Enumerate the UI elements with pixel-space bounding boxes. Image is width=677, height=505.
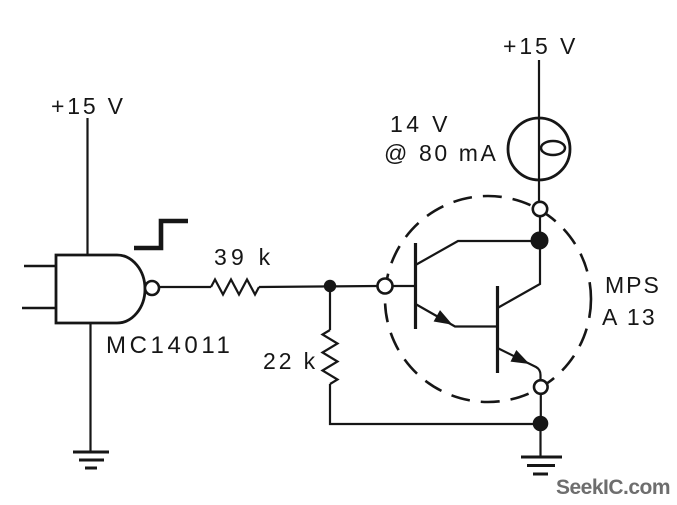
collector junction dot xyxy=(531,232,549,250)
gate input wire 1 xyxy=(24,265,56,268)
transistor Q2 emitter arrow xyxy=(511,350,530,364)
node base open circle xyxy=(378,279,393,294)
transistor Q2 collector wire xyxy=(498,248,541,308)
NAND gate U1 MC14011 body xyxy=(56,255,145,323)
wire R1 to node A xyxy=(259,286,378,287)
wire collector circle to collector dot xyxy=(539,216,541,234)
transistor Q2 base bar xyxy=(496,286,499,373)
wire node A to R2 xyxy=(329,286,331,330)
wire gate bottom to ground xyxy=(89,323,91,452)
wire R2 bottom to emitter node xyxy=(330,384,541,424)
gate input wire 2 xyxy=(22,307,56,310)
ground (left) xyxy=(73,452,109,468)
svg-text:@ 80 mA: @ 80 mA xyxy=(384,140,498,166)
svg-text:+15 V: +15 V xyxy=(51,93,126,119)
svg-text:14 V: 14 V xyxy=(390,111,451,137)
transistor Q1 collector wire xyxy=(416,241,538,265)
wire base circle to Q1 xyxy=(393,285,417,287)
ground (right) xyxy=(521,457,562,474)
svg-text:39 k: 39 k xyxy=(214,244,274,270)
svg-text:MPS: MPS xyxy=(605,272,661,298)
svg-text:A 13: A 13 xyxy=(602,304,657,330)
wire +15V into lamp xyxy=(538,60,540,180)
svg-text:+15 V: +15 V xyxy=(503,33,578,59)
wire emitter circle to emitter dot xyxy=(540,394,542,418)
lamp DS1 vertical lead through bulb xyxy=(538,118,540,202)
svg-text:MC14011: MC14011 xyxy=(106,332,233,359)
lamp DS1 circle xyxy=(508,118,570,180)
pulse step symbol xyxy=(134,221,188,248)
wire bubble to R1 xyxy=(159,286,211,288)
transistor Q2 emitter wire xyxy=(498,348,541,379)
transistor Q1 emitter wire xyxy=(416,304,498,327)
emitter junction dot xyxy=(533,416,549,432)
transistor Q1 base bar xyxy=(414,243,417,329)
NAND gate output bubble xyxy=(145,281,159,295)
emitter node open circle xyxy=(534,380,548,394)
dashed circle MPS A13 outline xyxy=(385,196,591,402)
wire +15V to NAND gate top xyxy=(86,118,88,255)
transistor Q1 emitter arrow xyxy=(434,310,453,325)
svg-text:SeekIC.com: SeekIC.com xyxy=(556,476,670,499)
resistor R1 39 k xyxy=(211,280,259,295)
wire emitter dot to ground xyxy=(539,423,541,457)
collector node open circle xyxy=(533,202,547,216)
resistor R2 22 k xyxy=(323,330,338,384)
svg-text:22 k: 22 k xyxy=(263,348,318,374)
node A junction dot xyxy=(324,280,336,292)
lamp DS1 filament ellipse xyxy=(541,141,565,155)
